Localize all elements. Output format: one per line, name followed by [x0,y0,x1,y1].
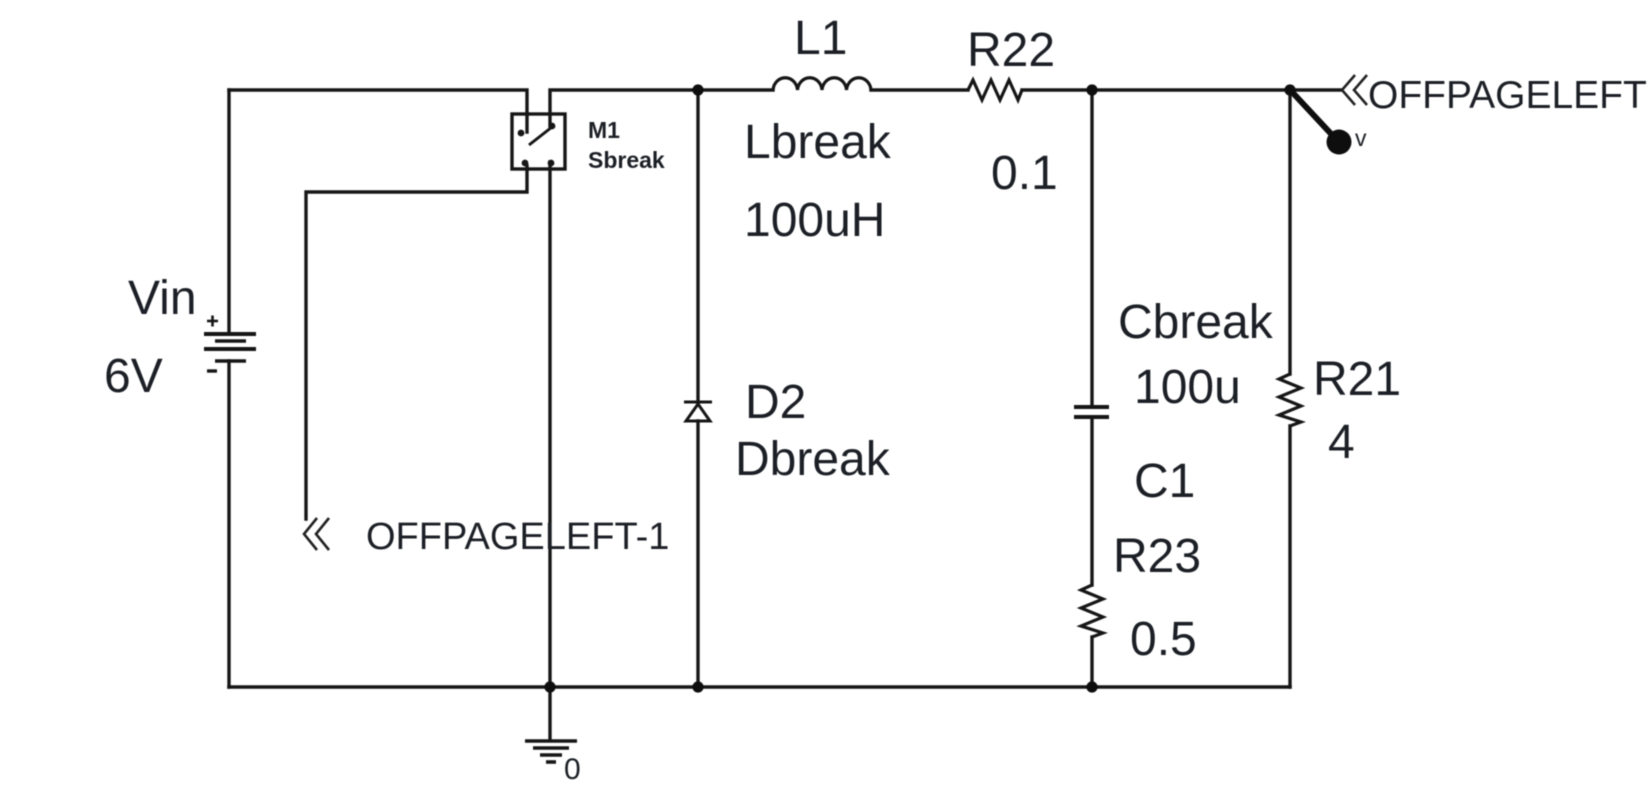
battery minus mark [207,369,217,372]
diode D2 [684,402,712,421]
svg-text:Cbreak: Cbreak [1118,296,1274,349]
wire battery top lead [227,90,230,333]
svg-text:Vin: Vin [128,272,197,325]
wire capacitor to R23 [1090,418,1093,585]
svg-text:D2: D2 [745,376,806,429]
svg-text:6V: 6V [104,350,163,403]
wire R21 bottom lead [1288,426,1291,687]
junction node R23 bottom [1086,681,1097,692]
junction node R22/C1 [1086,84,1097,95]
wire R21 top lead [1288,90,1291,374]
wire top rail left (battery+ to switch) [229,90,527,132]
wire switch control to offpage (gate wire) [306,166,527,519]
svg-text:OFFPAGELEFT: OFFPAGELEFT [1368,74,1647,117]
svg-text:0: 0 [564,753,581,786]
wire bottom rail [229,685,1290,688]
svg-text:R22: R22 [967,24,1055,77]
wire R23 bottom lead [1090,637,1093,687]
svg-text:R21: R21 [1313,353,1401,406]
capacitor C1 plates [1074,407,1109,417]
svg-text:C1: C1 [1134,455,1195,508]
voltage probe marker [1293,93,1367,155]
svg-text:M1: M1 [588,117,620,143]
wire top rail R22 to output corner [1022,88,1290,91]
svg-text:100u: 100u [1134,361,1241,414]
battery source Vin [204,334,256,361]
resistor R23 [1081,585,1103,637]
svg-text:L1: L1 [794,12,847,65]
svg-text:OFFPAGELEFT-1: OFFPAGELEFT-1 [366,516,669,558]
wire battery bottom lead [227,361,230,687]
junction node at switch/inductor [692,84,703,95]
wire switch top-right pin to top rail [550,90,773,126]
wire diode cathode branch [696,90,699,402]
svg-text:Dbreak: Dbreak [735,433,891,486]
battery plus mark [207,316,218,327]
offpage connector symbol left [304,518,329,550]
svg-text:Sbreak: Sbreak [588,147,665,173]
resistor R22 [968,80,1022,100]
wire switch source to bottom rail [548,162,551,687]
svg-text:0.5: 0.5 [1130,613,1197,666]
ground 0 [525,741,577,762]
junction node ground rail [544,681,555,692]
wire output to offpage right [1290,88,1341,91]
junction node output corner [1284,84,1295,95]
switch M1 (Sbreak) [512,114,565,169]
wire ground stem [548,687,551,740]
wire diode anode branch [696,421,699,687]
svg-text:v: v [1355,125,1367,151]
svg-text:4: 4 [1328,416,1355,469]
svg-text:0.1: 0.1 [991,147,1058,200]
wire capacitor top lead [1090,90,1093,405]
wire top rail L1 to R22 [871,88,968,91]
resistor R21 [1279,374,1301,426]
svg-text:Lbreak: Lbreak [744,116,892,169]
svg-text:100uH: 100uH [744,194,885,247]
inductor L1 [773,78,871,90]
junction node diode bottom [692,681,703,692]
offpage connector symbol right [1342,75,1367,105]
svg-text:R23: R23 [1113,530,1201,583]
